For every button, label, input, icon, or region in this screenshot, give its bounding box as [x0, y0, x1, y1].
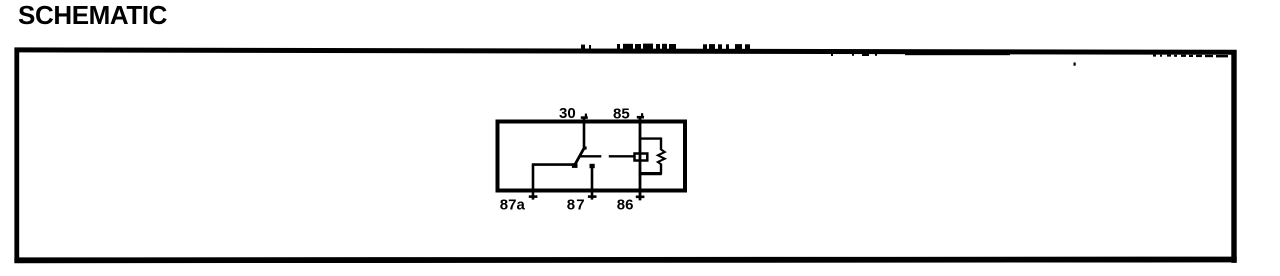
svg-text:30: 30 — [559, 105, 576, 122]
svg-text:87a: 87a — [500, 196, 526, 213]
terminal 86 pin mark — [636, 196, 645, 199]
svg-text:87: 87 — [567, 197, 586, 214]
resistor branch bottom wire — [639, 172, 662, 175]
resistor branch right wire lower — [660, 164, 662, 175]
contact stud 87 — [590, 164, 595, 168]
relay body outline — [498, 122, 686, 191]
resistor branch right wire upper — [660, 138, 662, 151]
terminal 30 pin — [581, 114, 588, 148]
border frame (decorative) — [14, 44, 1236, 263]
terminal 85 pin — [637, 113, 644, 117]
svg-text:85: 85 — [613, 106, 630, 123]
wire 85 to 86 vertical — [639, 116, 642, 200]
resistor zigzag — [658, 150, 665, 165]
svg-text:86: 86 — [617, 197, 634, 214]
dashed actuator link — [581, 155, 634, 157]
terminal 87 pin — [588, 167, 597, 200]
resistor branch top wire — [639, 137, 661, 139]
wire 87a horizontal — [532, 163, 577, 166]
switch armature — [572, 146, 587, 168]
relay coil box — [635, 154, 648, 161]
title SCHEMATIC — [18, 0, 167, 31]
terminal 87a pin — [529, 165, 538, 200]
